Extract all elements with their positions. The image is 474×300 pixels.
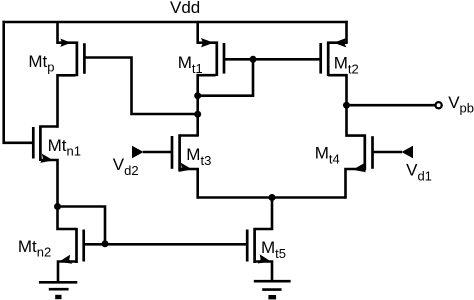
wire Vdd rail xyxy=(3,21,348,24)
transistor Mt5 source arrow xyxy=(258,254,272,266)
transistor Mt1 source arrow xyxy=(201,38,214,47)
wire Mt5 source lead xyxy=(255,262,272,281)
svg-text:Mtn1: Mtn1 xyxy=(48,136,81,159)
svg-text:Mt1: Mt1 xyxy=(178,53,203,76)
transistor Mt2 source arrow xyxy=(334,38,347,47)
wire Mt4 drain lead xyxy=(347,105,366,135)
wire Mt3 source lead xyxy=(179,169,198,199)
wire Mtn2 gate rail to Mt5 gate xyxy=(84,243,246,246)
transistor Mt1 channel bar xyxy=(215,41,218,76)
terminal Vpb open circle xyxy=(436,102,442,108)
transistor Mtn2 channel bar xyxy=(75,228,78,263)
ground (under Mtn2) xyxy=(39,282,77,297)
svg-text:Mt4: Mt4 xyxy=(315,143,340,166)
wire node A to node B xyxy=(58,207,106,244)
transistor Mtn2 gate bar xyxy=(82,230,85,262)
svg-text:Vpb: Vpb xyxy=(448,93,474,116)
wire Mt1 gate rail to Mt2 gate xyxy=(224,58,320,61)
transistor Mt4 gate bar xyxy=(371,136,374,169)
junction node A xyxy=(54,203,61,210)
svg-text:Vd2: Vd2 xyxy=(113,155,139,178)
transistor Mt3 channel bar xyxy=(178,134,181,171)
junction node D xyxy=(194,92,201,99)
transistor Mt4 source arrow xyxy=(352,163,366,174)
transistor Mtp gate bar xyxy=(83,43,86,74)
wire node column (D to Mt3 drain) xyxy=(196,96,199,137)
transistor Mtp channel bar xyxy=(76,41,79,76)
wire Mt4 source lead xyxy=(346,169,366,199)
svg-text:Mtp: Mtp xyxy=(28,52,54,75)
transistor Mtp source arrow xyxy=(60,39,71,47)
wire Mtn1 drain lead xyxy=(41,125,58,128)
wire Mt1 diode connection xyxy=(198,59,253,95)
ground (under Mt5) xyxy=(254,281,291,297)
wire Mt3 gate lead xyxy=(143,151,171,154)
wire Mt5 drain lead xyxy=(255,198,272,230)
junction node G xyxy=(343,102,350,109)
junction node F xyxy=(269,194,276,201)
transistor Mtn1 channel bar xyxy=(39,125,42,161)
junction node C xyxy=(250,56,257,63)
transistor Mt1 gate bar xyxy=(223,43,226,74)
svg-text:Mt2: Mt2 xyxy=(334,53,359,76)
wire bottom mid rail xyxy=(198,196,346,199)
transistor Mt3 gate bar xyxy=(171,136,174,169)
svg-text:Vdd: Vdd xyxy=(170,0,200,17)
transistor Mtn2 source arrow xyxy=(58,255,72,267)
wire Mtn2 source lead xyxy=(58,262,76,282)
transistor Mt2 channel bar xyxy=(327,41,330,76)
transistor Mt5 channel bar xyxy=(253,228,256,263)
transistor Mt5 gate bar xyxy=(246,230,249,262)
junction node E xyxy=(194,111,201,118)
wire Mtp drain lead xyxy=(58,75,76,127)
svg-text:Vd1: Vd1 xyxy=(406,161,432,184)
wire Mt3 drain lead xyxy=(179,134,198,137)
transistor Mt2 gate bar xyxy=(319,43,322,74)
wire Mtn1 source lead xyxy=(41,160,58,207)
wire Mt2 source lead xyxy=(329,21,346,43)
input arrow Vd2 xyxy=(132,146,144,158)
wire Mt1 source lead xyxy=(198,22,216,43)
transistor Mt4 channel bar xyxy=(363,134,366,170)
input arrow Vd1 xyxy=(402,146,414,158)
transistor Mtn1 gate bar xyxy=(32,127,35,159)
svg-text:Mtn2: Mtn2 xyxy=(18,237,51,260)
wire Mtp source lead xyxy=(58,22,76,43)
transistor Mt3 source arrow xyxy=(179,163,193,174)
svg-text:Mt3: Mt3 xyxy=(186,145,211,168)
wire Mt1 drain lead xyxy=(198,75,216,96)
junction node B xyxy=(102,240,109,247)
wire Mt2 drain lead xyxy=(328,75,346,105)
wire left rail (Vdd to Mtn1 gate) xyxy=(4,21,33,143)
wire Vpb output xyxy=(347,104,436,107)
wire Mtp gate lead xyxy=(84,58,197,115)
wire Mtn2 drain lead xyxy=(58,207,77,230)
wire Mt4 gate lead xyxy=(373,151,402,154)
transistor Mtn1 source arrow xyxy=(40,154,54,165)
